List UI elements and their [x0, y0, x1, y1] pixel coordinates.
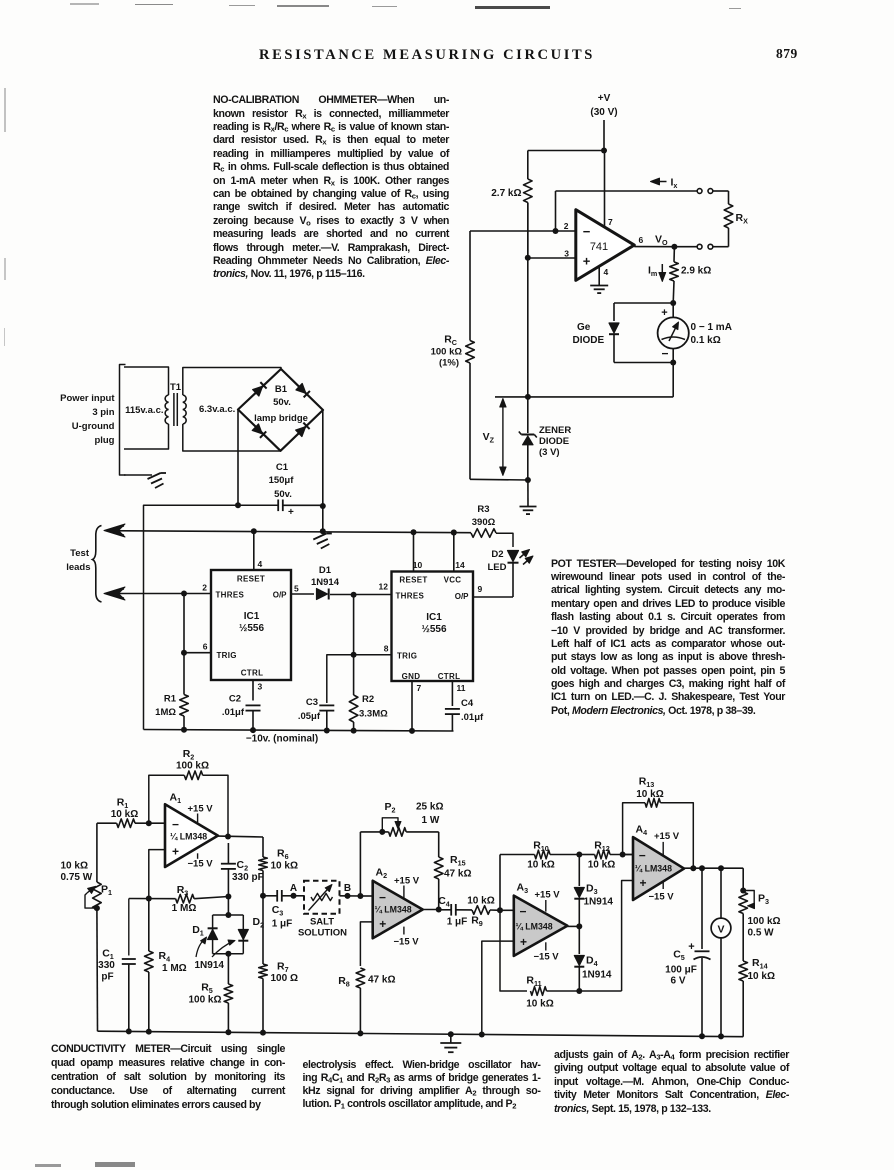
- svg-text:DIODE: DIODE: [539, 436, 569, 447]
- wire A3 inverting input: [500, 909, 514, 911]
- svg-text:lamp bridge: lamp bridge: [254, 413, 308, 424]
- svg-text:A1: A1: [170, 792, 182, 806]
- resistor 2.7 k (bias divider top): [491, 151, 532, 258]
- svg-text:C5: C5: [673, 949, 685, 963]
- svg-text:RESET: RESET: [399, 576, 427, 585]
- svg-text:+: +: [639, 876, 646, 890]
- op-amp A4 quarter LM348: [633, 824, 684, 903]
- svg-text:+V: +V: [598, 93, 611, 104]
- svg-text:R14: R14: [752, 957, 768, 971]
- svg-text:A2: A2: [376, 867, 388, 881]
- wire A1 output: [218, 835, 263, 838]
- node pin14 junction on bus: [451, 530, 457, 536]
- svg-text:−: −: [519, 905, 526, 919]
- resistor R1 1M: [155, 694, 188, 731]
- svg-text:−15 V: −15 V: [394, 937, 420, 948]
- svg-text:TRIG: TRIG: [217, 651, 237, 660]
- node pin4 junction on bus: [251, 528, 257, 534]
- svg-text:B1: B1: [275, 384, 288, 395]
- current arrow Im: [648, 264, 666, 282]
- svg-text:DIODE: DIODE: [573, 335, 605, 346]
- svg-text:7: 7: [417, 683, 422, 693]
- node A1 inverting junction: [146, 820, 152, 826]
- wire zener node to ground: [527, 480, 529, 506]
- svg-text:741: 741: [590, 241, 608, 253]
- LED D2: [488, 549, 534, 597]
- resistor R2 100k feedback: [149, 748, 228, 837]
- node TRIG junction: [181, 650, 187, 656]
- svg-text:R12: R12: [594, 840, 610, 854]
- capacitor C4 .01uf: [445, 698, 484, 731]
- svg-text:RESET: RESET: [237, 575, 265, 584]
- node output junction VO: [671, 244, 677, 250]
- svg-text:.05μf: .05μf: [298, 711, 321, 722]
- svg-text:12: 12: [379, 582, 389, 592]
- wire primary top: [124, 367, 169, 395]
- svg-text:0 − 1 mA: 0 − 1 mA: [691, 322, 732, 333]
- IC1a left half 556: [211, 570, 291, 680]
- svg-text:330 pF: 330 pF: [232, 872, 264, 883]
- node A2 output junction: [436, 907, 442, 913]
- resistor R1 10k: [97, 797, 165, 828]
- svg-text:D2: D2: [491, 549, 503, 560]
- wire Ix line to Rx terminal: [556, 190, 697, 192]
- wire supply node to 2.7k branch: [528, 150, 604, 152]
- svg-text:D1: D1: [192, 924, 204, 938]
- svg-text:R3: R3: [477, 504, 489, 515]
- wire op-amp output to node: [634, 246, 674, 248]
- svg-text:TRIG: TRIG: [397, 652, 417, 661]
- svg-text:−: −: [379, 891, 386, 905]
- wire bridge left vertex down: [237, 410, 239, 506]
- wire Vz top line: [495, 396, 673, 398]
- resistor R2 3.3M: [349, 694, 388, 731]
- resistor R15 47k: [434, 832, 471, 910]
- ground (op-amp pin 4): [590, 285, 608, 287]
- svg-text:2.7 kΩ: 2.7 kΩ: [491, 188, 521, 199]
- svg-text:.01μf: .01μf: [461, 712, 484, 723]
- wire D1 to THRES pin12: [330, 594, 392, 596]
- svg-text:(30 V): (30 V): [590, 107, 617, 118]
- label R3 390: [472, 504, 496, 528]
- capacitor C1 330pF: [98, 899, 136, 1032]
- svg-text:10 kΩ: 10 kΩ: [527, 860, 554, 871]
- wire C1 line right: [283, 504, 323, 506]
- resistor 2.9 k: [670, 247, 712, 303]
- IC1b right half 556: [392, 572, 474, 682]
- svg-text:R13: R13: [639, 776, 655, 790]
- ground (conductivity rail): [440, 1034, 461, 1052]
- svg-text:1N914: 1N914: [582, 970, 612, 981]
- resistor R9 10k: [467, 896, 500, 929]
- node R3/R4 junction: [146, 896, 152, 902]
- node A3 inverting junction: [497, 907, 503, 913]
- potentiometer P3 100k 0.5W: [739, 868, 781, 961]
- svg-text:+: +: [172, 845, 179, 859]
- svg-text:6: 6: [203, 642, 208, 652]
- wire A4 inverting input: [623, 854, 633, 856]
- svg-text:Test: Test: [70, 548, 90, 559]
- wire R3 input line: [129, 898, 176, 900]
- svg-text:1 W: 1 W: [422, 815, 440, 826]
- svg-text:¼ LM348: ¼ LM348: [516, 922, 553, 932]
- svg-text:0.1 kΩ: 0.1 kΩ: [691, 335, 721, 346]
- svg-text:IC1: IC1: [426, 612, 442, 623]
- measure arrow Vz: [483, 399, 507, 476]
- wire Ge diode branch down: [613, 303, 615, 321]
- resistor R12 10k: [579, 840, 633, 871]
- node R2 top junction: [351, 592, 357, 598]
- svg-text:100 kΩ: 100 kΩ: [431, 347, 463, 358]
- svg-text:+: +: [661, 307, 667, 319]
- node R1 branch junction: [181, 591, 187, 597]
- salt solution cell (dashed): [298, 881, 347, 939]
- svg-text:100 kΩ: 100 kΩ: [188, 995, 221, 1006]
- ground (test bus): [313, 534, 326, 540]
- pin 11 stub CTRL: [451, 681, 453, 706]
- svg-text:−: −: [661, 347, 668, 361]
- svg-text:4: 4: [258, 559, 263, 569]
- node pin2 feedback junction: [553, 228, 559, 234]
- resistor R8 47k: [338, 968, 395, 1034]
- svg-text:B: B: [344, 883, 351, 894]
- node output junctions: [690, 865, 724, 871]
- svg-text:100 μF: 100 μF: [665, 965, 697, 976]
- svg-text:R2: R2: [362, 694, 374, 705]
- node supply junction: [601, 148, 607, 154]
- wire non-inverting input (pin 3): [528, 257, 576, 259]
- ground (ohmmeter bottom): [520, 506, 537, 508]
- svg-text:−15 V: −15 V: [188, 859, 214, 870]
- svg-text:C1: C1: [276, 462, 289, 473]
- svg-text:14: 14: [455, 560, 465, 570]
- pin 10 stub: [413, 532, 415, 571]
- svg-text:1 μF: 1 μF: [272, 919, 293, 930]
- wire pin 6 TRIG: [184, 652, 211, 654]
- wire ground rail (conductivity meter): [98, 1031, 744, 1037]
- svg-text:½556: ½556: [421, 624, 446, 635]
- svg-text:D1: D1: [319, 565, 332, 576]
- svg-text:U-ground: U-ground: [72, 421, 115, 432]
- node B electrode: [344, 883, 351, 899]
- svg-text:Ge: Ge: [577, 322, 591, 333]
- svg-text:+: +: [688, 941, 694, 953]
- node A2 inverting junction: [357, 893, 363, 899]
- wire A2 feedback vertical: [359, 832, 361, 896]
- bridge rectifier B1 50v lamp bridge: [238, 369, 323, 451]
- svg-text:115v.a.c.: 115v.a.c.: [125, 405, 163, 416]
- svg-text:47 kΩ: 47 kΩ: [368, 975, 395, 986]
- wire terminal to output node: [674, 246, 697, 248]
- svg-text:C3: C3: [272, 904, 284, 918]
- svg-text:RC: RC: [444, 334, 457, 348]
- wire Rx bottom to terminal: [713, 246, 729, 248]
- svg-text:A3: A3: [517, 882, 529, 896]
- capacitor C3 .05uf: [298, 697, 334, 731]
- node meter bottom junction: [670, 360, 676, 366]
- svg-text:1 MΩ: 1 MΩ: [162, 963, 187, 974]
- svg-text:50v.: 50v.: [274, 489, 292, 500]
- terminal circles (Rx bottom): [697, 244, 702, 249]
- svg-text:(3 V): (3 V): [539, 447, 560, 458]
- svg-text:R4: R4: [159, 950, 171, 964]
- transformer T1: [125, 382, 235, 426]
- svg-text:−15 V: −15 V: [649, 892, 675, 903]
- ground (power plug): [148, 473, 161, 479]
- pin 7 wire from supply: [604, 151, 606, 228]
- svg-text:4: 4: [604, 267, 609, 277]
- svg-text:6: 6: [639, 235, 644, 245]
- svg-text:GND: GND: [402, 672, 421, 681]
- wire U-ground pin: [124, 474, 152, 476]
- svg-text:R8: R8: [338, 975, 350, 989]
- svg-text:2.9 kΩ: 2.9 kΩ: [681, 266, 711, 277]
- resistor R13 10k feedback: [623, 776, 694, 869]
- svg-text:+: +: [379, 917, 386, 931]
- wire TRIG branch vertical: [183, 594, 185, 695]
- svg-text:ZENER: ZENER: [539, 425, 571, 436]
- wire secondary bottom to bridge: [183, 424, 281, 451]
- wire O/P pin5 to D1: [291, 593, 314, 595]
- wire THRES input (test lead 2): [107, 593, 211, 595]
- svg-text:1 MΩ: 1 MΩ: [172, 903, 197, 914]
- node pin3 junction on divider: [525, 255, 531, 261]
- wire C2 node down to diode pair: [227, 897, 229, 916]
- resistor RX (unknown): [724, 191, 748, 247]
- svg-text:150μf: 150μf: [269, 475, 295, 486]
- node meter top junction: [670, 300, 676, 306]
- svg-text:10: 10: [413, 560, 423, 570]
- svg-text:SOLUTION: SOLUTION: [298, 928, 347, 939]
- wire Ge diode to meter bottom: [614, 335, 673, 363]
- node TRIG crossing junction: [351, 652, 357, 658]
- wire inverting input net (pin 2): [470, 230, 576, 232]
- svg-text:3.3MΩ: 3.3MΩ: [359, 709, 388, 720]
- pin 4 stub and label: [599, 267, 608, 285]
- svg-text:10 kΩ: 10 kΩ: [61, 861, 88, 872]
- node R6/R7/C3 junction: [260, 893, 266, 899]
- potentiometer P2 25k 1W: [360, 801, 443, 836]
- svg-text:+: +: [583, 254, 591, 269]
- svg-text:6.3v.a.c.: 6.3v.a.c.: [199, 404, 235, 415]
- svg-text:0.75 W: 0.75 W: [61, 872, 93, 883]
- svg-text:plug: plug: [94, 435, 114, 446]
- svg-text:.01μf: .01μf: [222, 707, 245, 718]
- svg-text:¼ LM348: ¼ LM348: [170, 832, 207, 842]
- svg-text:A: A: [290, 883, 297, 894]
- diode D1 1N914: [311, 565, 340, 600]
- terminal circles (Rx top): [697, 189, 702, 194]
- svg-text:1 μF: 1 μF: [447, 917, 468, 928]
- svg-text:D4: D4: [586, 955, 598, 969]
- svg-text:P2: P2: [384, 801, 395, 815]
- wire bridge right vertex down to ground bus: [322, 410, 324, 531]
- svg-text:1N914: 1N914: [584, 897, 614, 908]
- op-amp U1 741: [576, 210, 635, 281]
- svg-text:O/P: O/P: [455, 592, 469, 601]
- svg-text:3: 3: [258, 682, 263, 692]
- diode Ge DIODE: [573, 322, 620, 346]
- resistor R3 390ohm: [451, 529, 496, 538]
- svg-text:10 kΩ: 10 kΩ: [588, 860, 615, 871]
- bracket power input: [120, 365, 126, 476]
- svg-text:+15 V: +15 V: [394, 876, 420, 887]
- svg-text:−10v. (nominal): −10v. (nominal): [246, 734, 318, 745]
- wire to Rx: [713, 190, 729, 192]
- svg-text:9: 9: [478, 584, 483, 594]
- svg-text:10 kΩ: 10 kΩ: [636, 789, 663, 800]
- wire feedback vertical to Ix line: [555, 191, 557, 231]
- svg-text:RX: RX: [736, 212, 749, 226]
- wire divider to zener: [527, 203, 529, 434]
- svg-text:C4: C4: [438, 895, 450, 909]
- svg-text:R3: R3: [177, 884, 189, 898]
- svg-text:P1: P1: [101, 884, 112, 898]
- svg-text:LED: LED: [488, 562, 507, 573]
- node R13 junction: [620, 852, 626, 858]
- svg-text:100 Ω: 100 Ω: [271, 973, 298, 984]
- svg-text:O/P: O/P: [273, 591, 287, 600]
- svg-text:100 kΩ: 100 kΩ: [176, 761, 209, 772]
- node pin10 junction on bus: [411, 529, 417, 535]
- meter M1 0-1 mA: [658, 303, 732, 363]
- svg-text:P3: P3: [758, 893, 769, 907]
- svg-text:1MΩ: 1MΩ: [155, 707, 176, 718]
- svg-text:THRES: THRES: [396, 592, 425, 601]
- svg-text:C2: C2: [229, 694, 241, 705]
- node rail junctions: [181, 727, 415, 734]
- svg-text:SALT: SALT: [310, 917, 334, 928]
- svg-text:R1: R1: [164, 694, 177, 705]
- wire Vz bottom line: [470, 478, 528, 481]
- resistor R5 100k: [188, 954, 232, 1032]
- svg-text:6 V: 6 V: [670, 976, 685, 987]
- svg-text:+15 V: +15 V: [188, 804, 214, 815]
- svg-text:−15 V: −15 V: [534, 952, 560, 963]
- svg-text:47 kΩ: 47 kΩ: [444, 869, 471, 880]
- node A3 output junction: [576, 923, 582, 929]
- svg-text:−: −: [639, 849, 646, 863]
- resistor R10 10k: [500, 840, 579, 871]
- svg-text:R6: R6: [277, 848, 289, 862]
- node bridge minus to C1 line: [235, 502, 241, 508]
- node ground junction on bus: [320, 528, 326, 534]
- diode pair D1 D2 1N914: [192, 912, 264, 971]
- svg-text:10 kΩ: 10 kΩ: [748, 971, 775, 982]
- svg-text:5: 5: [294, 584, 299, 594]
- wire A3 non-inverting input: [482, 941, 514, 1034]
- capacitor C4 1uF: [438, 895, 472, 928]
- wire A3 output: [567, 925, 579, 927]
- label Power input 3 pin U-ground plug: [60, 393, 115, 446]
- svg-text:+: +: [520, 935, 527, 949]
- svg-text:V: V: [717, 924, 724, 936]
- svg-text:−: −: [583, 224, 591, 239]
- svg-text:+15 V: +15 V: [535, 890, 561, 901]
- pin 3 stub CTRL: [252, 680, 254, 701]
- node +V (30 V) supply label: [590, 93, 617, 118]
- svg-text:10 kΩ: 10 kΩ: [526, 999, 553, 1010]
- wire A4 output: [684, 867, 743, 869]
- svg-text:10 kΩ: 10 kΩ: [111, 809, 138, 820]
- svg-text:IC1: IC1: [244, 611, 260, 622]
- resistor R3 1M: [172, 884, 197, 914]
- diode D3 1N914: [574, 855, 613, 927]
- capacitor C2 330pF: [221, 843, 264, 897]
- svg-text:C4: C4: [461, 698, 474, 709]
- node A electrode: [290, 883, 297, 899]
- svg-text:10 kΩ: 10 kΩ: [467, 896, 494, 907]
- wire -10V rail: [144, 730, 454, 732]
- pin 4 stub: [253, 531, 255, 570]
- test lead arrow (ground bus): [104, 524, 125, 537]
- svg-text:+15 V: +15 V: [654, 831, 680, 842]
- svg-text:D3: D3: [586, 883, 598, 897]
- svg-text:THRES: THRES: [216, 591, 245, 600]
- node A1 output junction: [225, 834, 231, 840]
- resistor R6 10k: [259, 837, 298, 896]
- svg-text:1N914: 1N914: [311, 577, 340, 588]
- resistor R11 10k: [500, 910, 622, 1009]
- svg-text:T1: T1: [170, 382, 182, 393]
- svg-text:Power input: Power input: [60, 393, 115, 404]
- wire +V down to supply node: [603, 120, 605, 151]
- node R11/D4 junction: [576, 988, 582, 994]
- svg-text:25 kΩ: 25 kΩ: [416, 802, 443, 813]
- wire ground bus (test lead 1): [107, 531, 471, 533]
- svg-text:C3: C3: [306, 697, 318, 708]
- wire meter top to Ge diode branch: [614, 302, 673, 304]
- wire meter bottom to Vz line: [672, 363, 674, 397]
- wire A to salt solution: [294, 895, 305, 897]
- svg-text:VO: VO: [655, 234, 668, 248]
- svg-text:R10: R10: [533, 840, 549, 854]
- svg-text:¼ LM348: ¼ LM348: [635, 864, 672, 874]
- current arrow Ix: [651, 177, 678, 191]
- svg-text:R9: R9: [471, 915, 483, 929]
- svg-text:Ix: Ix: [671, 177, 678, 191]
- wire A4 non-inverting input: [622, 881, 633, 992]
- pin 14 stub: [453, 533, 455, 572]
- wire B to A2 inverting input: [360, 895, 372, 897]
- wire R2 branch vertical: [353, 595, 355, 695]
- node zener top junction: [525, 394, 531, 400]
- capacitor C5 100uF 6V: [665, 868, 710, 1036]
- svg-text:−: −: [172, 818, 179, 832]
- svg-text:A4: A4: [636, 824, 648, 838]
- voltmeter V: [711, 868, 731, 1036]
- capacitor C2 .01uf: [222, 694, 261, 731]
- wire A2 non-inverting input: [360, 922, 372, 966]
- wire R3 to LED: [496, 533, 513, 547]
- resistor RC 100k 1%: [431, 231, 475, 479]
- svg-text:R5: R5: [201, 982, 213, 996]
- svg-text:CTRL: CTRL: [241, 669, 264, 678]
- zener diode (3 V): [519, 425, 572, 480]
- op-amp A3 quarter LM348: [514, 882, 568, 963]
- svg-text:8: 8: [384, 644, 389, 654]
- svg-text:330: 330: [98, 960, 115, 971]
- svg-text:VZ: VZ: [483, 431, 495, 445]
- test lead arrow (THRES input): [104, 587, 125, 600]
- svg-text:(1%): (1%): [439, 358, 459, 369]
- wire C1 line left: [144, 505, 278, 729]
- node C2 bottom junction: [225, 894, 231, 900]
- wire pin 8 TRIG: [327, 655, 392, 703]
- wire A2 output: [423, 909, 439, 911]
- svg-text:leads: leads: [66, 562, 90, 573]
- node rail junctions (conductivity): [126, 1028, 724, 1039]
